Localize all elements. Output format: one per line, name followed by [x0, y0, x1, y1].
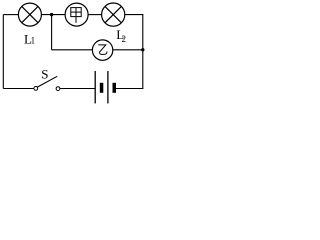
switch S left terminal	[34, 87, 38, 91]
battery cell 2 short thick plate	[113, 83, 117, 93]
meter 乙 character strokes	[98, 45, 107, 55]
svg-text:S: S	[41, 67, 48, 82]
wire L1 to junction A	[41, 14, 65, 16]
lamp L1	[18, 3, 41, 26]
lamp L2	[102, 3, 125, 26]
wire branch vertical from node A	[51, 15, 53, 50]
wire battery to bottom right corner	[116, 88, 143, 90]
wire top left segment	[3, 14, 18, 16]
wire left vertical	[2, 15, 4, 89]
label L2	[116, 27, 126, 44]
meter 乙 (yi) circle	[92, 40, 112, 60]
wire switch to battery	[60, 88, 95, 90]
wire bottom left segment	[3, 88, 34, 90]
svg-text:1: 1	[31, 36, 35, 46]
svg-text:2: 2	[122, 34, 127, 44]
wire right vertical	[142, 15, 144, 89]
meter 甲 (jia) circle	[65, 3, 88, 26]
node A junction dot	[50, 13, 53, 16]
battery cell 1 long plate	[94, 71, 96, 103]
battery cell 2 long plate	[107, 71, 109, 103]
meter 甲 character strokes	[71, 8, 81, 23]
node B junction dot (right)	[141, 48, 144, 51]
battery cell 1 short thick plate	[100, 83, 104, 93]
switch S lever	[37, 76, 57, 87]
label L1	[24, 31, 35, 46]
wire L2 to top right corner	[125, 14, 144, 16]
wire branch horizontal left (to meter 乙)	[52, 49, 93, 51]
wire 乙 to right junction	[113, 49, 143, 51]
switch S right terminal	[56, 87, 60, 91]
wire 甲 to L2	[88, 14, 101, 16]
